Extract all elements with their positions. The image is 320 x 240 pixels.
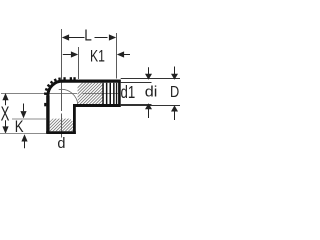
D arrows	[171, 67, 178, 121]
elbow outer arc	[48, 81, 63, 95]
dimension X	[2, 93, 8, 134]
svg-text:L: L	[84, 28, 92, 45]
dimension K1	[63, 51, 130, 57]
svg-text:di: di	[145, 84, 158, 100]
label X	[1, 103, 10, 125]
label d1	[121, 84, 136, 103]
di arrows	[145, 67, 152, 118]
socket end face	[118, 80, 121, 107]
svg-text:D: D	[170, 84, 179, 102]
label di	[145, 84, 158, 100]
D reference line top	[121, 78, 180, 80]
K upper reference line	[12, 118, 46, 120]
dimension L extension line right	[116, 33, 118, 79]
vertical pipe right edge	[73, 104, 76, 134]
pipe bottom edge	[73, 104, 121, 107]
d1 reference line top	[121, 82, 152, 84]
d1 reference line bottom	[121, 104, 152, 106]
elbow grip ribs	[44, 77, 76, 106]
svg-text:X: X	[1, 103, 10, 125]
hatched inserted pipe (horizontal socket)	[78, 83, 104, 104]
socket corrugation ribs	[102, 83, 117, 104]
svg-text:d1: d1	[121, 84, 136, 103]
label K	[15, 118, 24, 137]
D reference line bottom	[121, 105, 180, 107]
dimension K	[20, 104, 27, 149]
elbow bore arc	[59, 89, 78, 105]
vertical axis centerline	[61, 29, 63, 138]
label L	[84, 28, 92, 45]
pipe top edge	[62, 80, 121, 83]
vertical pipe bottom face	[46, 131, 76, 134]
horizontal axis centerline	[1, 93, 118, 95]
vertical pipe left edge	[46, 96, 49, 135]
dimension K1 extension line left	[78, 47, 80, 79]
svg-text:K1: K1	[90, 48, 105, 66]
X/K bottom reference line	[0, 133, 46, 135]
label K1	[90, 48, 105, 66]
svg-text:d: d	[57, 136, 65, 152]
label d	[57, 136, 65, 152]
hatched inserted pipe (vertical spigot)	[50, 119, 73, 132]
label D	[170, 84, 179, 102]
dimension L	[62, 34, 116, 40]
